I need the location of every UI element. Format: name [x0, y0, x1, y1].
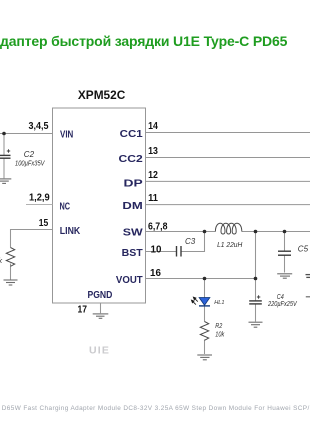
svg-text:CC2: CC2	[119, 154, 144, 165]
svg-text:SW: SW	[123, 228, 143, 239]
svg-text:HL1: HL1	[214, 300, 224, 306]
svg-text:LINK: LINK	[60, 226, 81, 237]
svg-text:L1 22uH: L1 22uH	[217, 240, 243, 249]
svg-text:17: 17	[78, 305, 88, 316]
svg-text:12: 12	[148, 170, 158, 181]
svg-text:C3: C3	[185, 237, 196, 246]
svg-text:CC1: CC1	[120, 129, 143, 140]
svg-text:BST: BST	[122, 248, 144, 259]
svg-text:10k: 10k	[215, 330, 225, 339]
svg-text:100µFx35V: 100µFx35V	[15, 158, 45, 167]
svg-text:DP: DP	[124, 179, 143, 190]
svg-text:1,2,9: 1,2,9	[29, 192, 50, 203]
svg-text:VOUT: VOUT	[116, 275, 143, 286]
svg-text:XPM52C: XPM52C	[78, 88, 126, 102]
svg-text:6,7,8: 6,7,8	[148, 221, 168, 232]
svg-text:10: 10	[151, 244, 162, 255]
svg-text:10k: 10k	[0, 256, 3, 265]
svg-text:220µFx25V: 220µFx25V	[267, 299, 297, 308]
svg-text:NC: NC	[60, 202, 71, 213]
svg-text:15: 15	[39, 218, 49, 229]
svg-text:3,4,5: 3,4,5	[29, 121, 49, 132]
svg-text:DM: DM	[122, 201, 142, 212]
svg-text:13: 13	[148, 146, 158, 157]
svg-text:11: 11	[148, 193, 158, 204]
svg-text:UIE: UIE	[89, 345, 110, 357]
svg-text:14: 14	[148, 121, 158, 132]
svg-text:VIN: VIN	[60, 129, 73, 140]
svg-text:PGND: PGND	[87, 290, 112, 301]
svg-text:16: 16	[150, 268, 161, 279]
svg-text:C5: C5	[298, 245, 309, 254]
